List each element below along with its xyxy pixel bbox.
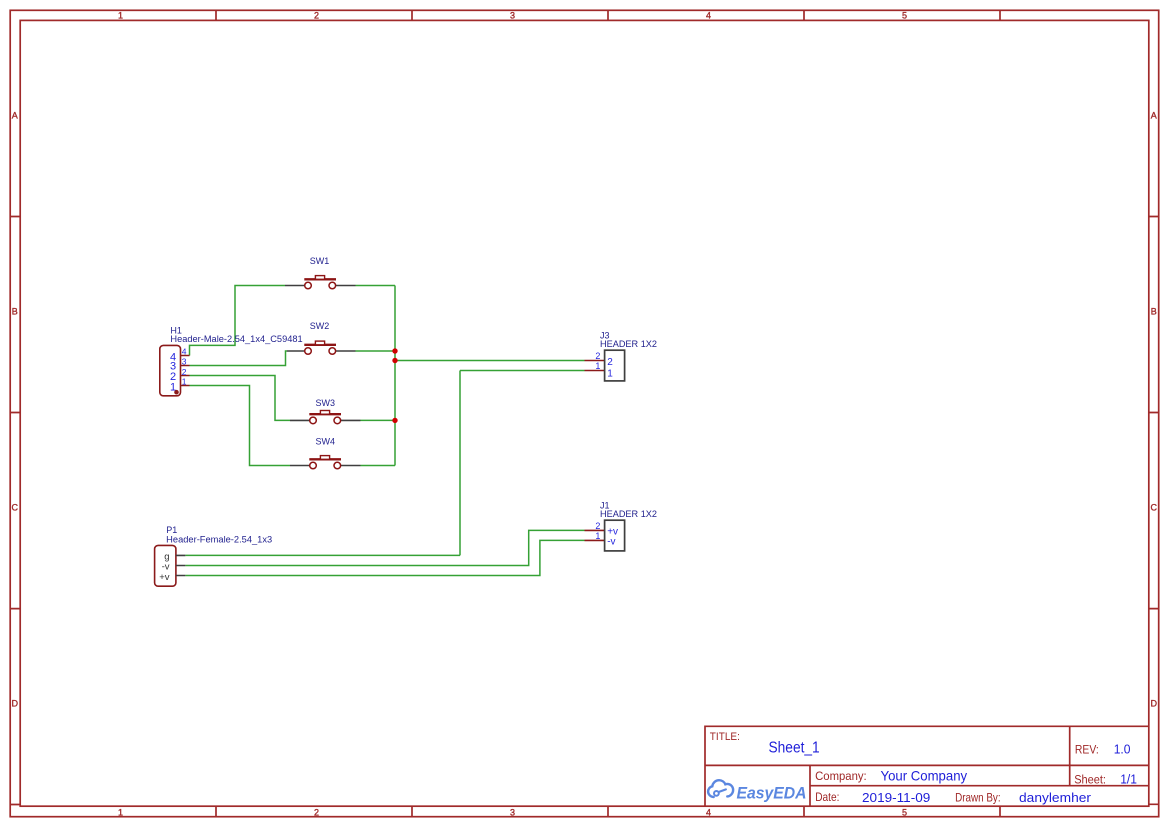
svg-text:SW4: SW4 bbox=[316, 437, 336, 447]
svg-text:1/1: 1/1 bbox=[1120, 771, 1137, 786]
svg-text:SW3: SW3 bbox=[316, 398, 336, 408]
svg-text:2: 2 bbox=[595, 521, 600, 531]
svg-text:HEADER 1X2: HEADER 1X2 bbox=[600, 509, 657, 519]
svg-text:Date:: Date: bbox=[815, 790, 839, 804]
svg-text:-v: -v bbox=[162, 561, 170, 572]
svg-text:1: 1 bbox=[118, 11, 123, 21]
svg-text:2: 2 bbox=[182, 367, 187, 377]
svg-text:2: 2 bbox=[314, 808, 319, 818]
svg-text:B: B bbox=[1151, 307, 1157, 317]
svg-text:REV:: REV: bbox=[1075, 743, 1099, 757]
svg-text:A: A bbox=[1151, 111, 1157, 121]
svg-text:Company:: Company: bbox=[815, 769, 867, 783]
svg-text:C: C bbox=[1150, 503, 1157, 513]
svg-text:1: 1 bbox=[118, 808, 123, 818]
svg-text:B: B bbox=[12, 307, 18, 317]
svg-text:2: 2 bbox=[595, 351, 600, 361]
svg-text:danylemher: danylemher bbox=[1019, 790, 1092, 805]
svg-text:SW2: SW2 bbox=[310, 321, 330, 331]
svg-text:C: C bbox=[12, 503, 19, 513]
svg-text:Header-Male-2.54_1x4_C59481: Header-Male-2.54_1x4_C59481 bbox=[170, 334, 302, 344]
svg-text:4: 4 bbox=[706, 808, 711, 818]
svg-text:5: 5 bbox=[902, 11, 907, 21]
svg-text:3: 3 bbox=[182, 357, 187, 367]
svg-text:1: 1 bbox=[607, 368, 613, 379]
svg-text:1: 1 bbox=[182, 376, 187, 386]
svg-text:2: 2 bbox=[314, 11, 319, 21]
svg-text:5: 5 bbox=[902, 808, 907, 818]
svg-text:SW1: SW1 bbox=[310, 256, 330, 266]
svg-text:D: D bbox=[1150, 699, 1157, 709]
svg-text:Drawn By:: Drawn By: bbox=[955, 791, 1001, 805]
svg-text:3: 3 bbox=[510, 11, 515, 21]
svg-text:+v: +v bbox=[159, 572, 170, 583]
svg-text:4: 4 bbox=[182, 347, 187, 357]
svg-text:TITLE:: TITLE: bbox=[710, 731, 740, 743]
svg-text:-v: -v bbox=[607, 537, 615, 548]
svg-text:A: A bbox=[12, 111, 18, 121]
svg-text:2: 2 bbox=[607, 357, 613, 368]
svg-text:1: 1 bbox=[170, 381, 176, 393]
svg-text:EasyEDA: EasyEDA bbox=[737, 784, 807, 802]
svg-text:2019-11-09: 2019-11-09 bbox=[862, 790, 930, 805]
svg-text:Header-Female-2.54_1x3: Header-Female-2.54_1x3 bbox=[166, 534, 272, 544]
svg-text:3: 3 bbox=[510, 808, 515, 818]
svg-text:1: 1 bbox=[595, 531, 600, 541]
svg-text:4: 4 bbox=[706, 11, 711, 21]
svg-text:Your Company: Your Company bbox=[881, 767, 968, 783]
svg-text:1: 1 bbox=[595, 361, 600, 371]
svg-text:Sheet_1: Sheet_1 bbox=[769, 740, 820, 757]
svg-text:1.0: 1.0 bbox=[1114, 743, 1131, 757]
svg-text:Sheet:: Sheet: bbox=[1074, 772, 1106, 786]
svg-text:D: D bbox=[12, 699, 19, 709]
svg-text:HEADER 1X2: HEADER 1X2 bbox=[600, 339, 657, 349]
